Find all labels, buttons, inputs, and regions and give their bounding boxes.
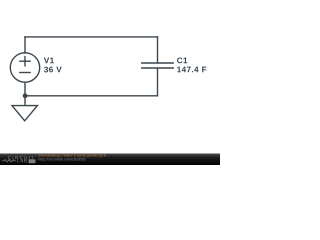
V1 plus sign <box>20 60 30 62</box>
wire C1 bottom plate down <box>157 68 159 96</box>
logo CIRCUIT text <box>8 156 34 159</box>
capacitor C1 bottom plate <box>142 67 173 69</box>
watermark bar <box>0 154 220 166</box>
wire top horizontal <box>25 36 158 38</box>
label V1 <box>44 58 54 64</box>
capacitor C1 top plate <box>142 62 173 64</box>
label 147.4 F <box>177 67 206 73</box>
label 36 V <box>44 67 62 73</box>
wire right vertical into C1 top plate <box>157 37 159 63</box>
wire bottom horizontal <box>25 95 158 97</box>
voltage source V1 circle <box>10 53 39 82</box>
wire V1 bottom to junction and ground <box>24 83 26 106</box>
ground symbol triangle <box>12 106 37 121</box>
watermark line 2 <box>39 158 86 161</box>
logo resistor zigzag <box>2 160 16 163</box>
label C1 <box>177 57 187 63</box>
node junction dot <box>23 93 28 98</box>
V1 minus sign <box>20 72 30 74</box>
logo gray tag box <box>29 159 36 163</box>
wire top-left vertical into V1 <box>24 37 26 53</box>
logo LAB text <box>17 159 26 162</box>
watermark line 1 <box>39 154 106 157</box>
